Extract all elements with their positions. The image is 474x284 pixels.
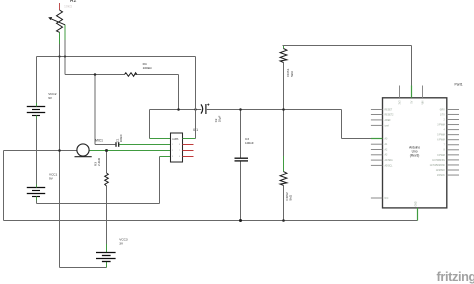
Arduino top pin labels rotated bbox=[399, 100, 424, 105]
battery VCC2 bbox=[27, 103, 45, 119]
wire cap row y=109 left part bbox=[150, 109, 202, 111]
wire IC1 unconnected pin 3 bbox=[183, 150, 194, 152]
wire CDS divider vertical middle bbox=[283, 63, 285, 172]
wire VCC3 bottom green leg bbox=[106, 262, 108, 268]
label VCC3 3V bbox=[119, 238, 128, 246]
wire A0 row y=138.5 bbox=[342, 138, 372, 140]
svg-text:ioref: ioref bbox=[385, 124, 390, 127]
svg-text:VIN: VIN bbox=[422, 100, 424, 104]
svg-text:6 PWM: 6 PWM bbox=[437, 140, 445, 142]
label C1 100nF rotated bbox=[116, 134, 124, 142]
wire VCC1 bottom stub bbox=[36, 197, 38, 204]
wire IC pin4 left green y=156.5 bbox=[160, 156, 171, 158]
label C3 100nF bbox=[245, 137, 254, 145]
wire C1 row right to IC pin2 green bbox=[119, 144, 170, 146]
battery VCC1 bbox=[27, 185, 45, 201]
node junction mic line R3 branch bbox=[105, 149, 108, 152]
svg-text:13/SCK: 13/SCK bbox=[437, 175, 445, 177]
wire C3 vertical top bbox=[240, 110, 242, 159]
wire feedback left vertical x=149.5 bbox=[149, 110, 151, 139]
wire CDS divider leg green top bbox=[283, 46, 285, 49]
svg-text:10µF: 10µF bbox=[218, 115, 222, 122]
capacitor C2 polarized bbox=[201, 104, 209, 115]
label R4 100k bbox=[143, 62, 153, 70]
svg-text:AREF: AREF bbox=[385, 119, 392, 122]
svg-text:11 PWM/MOSI: 11 PWM/MOSI bbox=[430, 165, 446, 167]
wire pot wiper vertical x=65 bbox=[64, 25, 66, 75]
wire pot bottom green leg bbox=[59, 32, 61, 44]
resistor R4 bbox=[125, 73, 137, 77]
node junction cap row IC out bbox=[194, 108, 196, 110]
potentiometer R2 bbox=[48, 3, 65, 32]
Arduino right pin labels bbox=[430, 109, 446, 177]
wire IC1 output vertical x=195.5 bbox=[195, 57, 197, 139]
wire R4 row y=74.5 bbox=[65, 74, 125, 76]
wire pot bottom terminal down to VCC3 return x=59.5 bbox=[59, 32, 61, 220]
label R2 (cut off at top) bbox=[64, 0, 77, 9]
wire x=95 vertical to C1 row bbox=[94, 75, 96, 145]
svg-text:100nF: 100nF bbox=[119, 134, 123, 142]
Arduino left pins group bbox=[371, 110, 383, 199]
svg-text:fritzing: fritzing bbox=[437, 269, 474, 284]
svg-text:6: 6 bbox=[179, 156, 180, 158]
svg-text:RESET: RESET bbox=[385, 109, 393, 111]
Arduino Uno Part1 body bbox=[383, 98, 447, 208]
wire 5V vertical x=411.5 bbox=[411, 46, 413, 86]
node junction pot-wiper VCC rail bbox=[64, 55, 66, 57]
node junction bus C3 bbox=[239, 219, 242, 222]
battery VCC3 bbox=[96, 253, 116, 262]
wire VCC top rail y=56.5 bbox=[37, 56, 196, 58]
Arduino top pins group bbox=[400, 86, 423, 98]
svg-text:3 PWM: 3 PWM bbox=[437, 124, 445, 126]
svg-text:5kΩ: 5kΩ bbox=[290, 71, 294, 77]
label CDS2 rotated bbox=[285, 192, 293, 201]
wire IC pin1 left green y=138.5 bbox=[150, 138, 171, 140]
wire C1 row left y=144.5 bbox=[95, 144, 115, 146]
wire pot wiper green leg bbox=[64, 25, 66, 40]
photoresistor CDS1 bbox=[280, 49, 287, 63]
Arduino bottom GND pin green bbox=[417, 208, 419, 221]
wire C3 vertical bottom bbox=[240, 161, 242, 221]
svg-text:(Rev3): (Rev3) bbox=[410, 154, 420, 158]
wire VCC3 return vertical x=59.5 bbox=[59, 221, 61, 268]
wire mic line left y=150.5 bbox=[4, 150, 78, 152]
resistor R3 bbox=[105, 173, 109, 186]
op-amp IC1 body bbox=[171, 133, 183, 162]
wire A0 pin green bbox=[371, 138, 382, 140]
capacitor C1 bbox=[116, 142, 119, 147]
microphone MIC1 bbox=[75, 144, 92, 157]
wire R3 bottom segment to VCC3 bbox=[106, 186, 108, 253]
wire VCC3 top green leg bbox=[106, 244, 108, 253]
svg-text:3V3: 3V3 bbox=[399, 100, 401, 105]
wire CDS2 bottom to bus bbox=[283, 185, 285, 220]
Arduino right pins group bbox=[447, 110, 459, 176]
label R3 2.2k rotated bbox=[93, 157, 101, 166]
Arduino left pin labels bbox=[385, 109, 395, 200]
svg-text:1/TX: 1/TX bbox=[440, 114, 445, 116]
svg-text:GND: GND bbox=[416, 201, 418, 206]
node junction R4 tap bbox=[94, 73, 97, 76]
wire CDS2 lower leg green bbox=[283, 156, 285, 172]
svg-text:3: 3 bbox=[172, 156, 173, 158]
svg-text:7: 7 bbox=[179, 150, 180, 152]
svg-text:100kΩ: 100kΩ bbox=[143, 66, 153, 70]
node junction cap row C3 bbox=[239, 108, 242, 111]
wire VCC1 bottom row y=203.5 bbox=[37, 203, 160, 205]
svg-text:10 PWM/SS: 10 PWM/SS bbox=[432, 160, 445, 162]
wire x=178.5 vertical R4 to cap row bbox=[178, 75, 180, 110]
label CDS1 rotated bbox=[286, 68, 294, 77]
svg-text:LM86: LM86 bbox=[172, 138, 179, 141]
wire VCC2 to VCC1 vertical bbox=[36, 115, 38, 188]
svg-text:A4/SDA: A4/SDA bbox=[385, 159, 394, 162]
svg-text:100nF: 100nF bbox=[245, 141, 254, 145]
label VCC1 9V bbox=[49, 173, 58, 181]
wire R3 top segment x=106.5 bbox=[106, 151, 108, 174]
svg-text:RESET2: RESET2 bbox=[385, 114, 395, 116]
svg-text:12/MISO: 12/MISO bbox=[436, 170, 445, 172]
node junction cap row R4 bbox=[177, 108, 180, 111]
wire A0 branch vertical x=341.5 bbox=[341, 110, 343, 139]
svg-text:Part1: Part1 bbox=[455, 83, 463, 87]
wire IC1 output green bbox=[183, 138, 196, 140]
node junction mic line pot branch bbox=[58, 149, 61, 152]
wire IC1 unconnected pin 2 bbox=[183, 144, 194, 146]
wire R4 row right segment bbox=[135, 74, 179, 76]
svg-text:N/C: N/C bbox=[385, 198, 389, 200]
wire mic output green y=150.5 bbox=[89, 150, 170, 152]
node junction bus CDS2 bbox=[282, 219, 285, 222]
svg-text:1: 1 bbox=[172, 144, 173, 146]
svg-text:9 PWM: 9 PWM bbox=[437, 155, 445, 157]
node junction cap row CDS bbox=[282, 108, 285, 111]
wire VCC3 return bottom y=267.5 bbox=[60, 267, 107, 269]
svg-text:2.2kΩ: 2.2kΩ bbox=[97, 157, 101, 166]
node junction pot-left VCC rail bbox=[58, 55, 60, 57]
wire IC1 unconnected pin 4 bbox=[183, 156, 194, 158]
svg-text:2: 2 bbox=[172, 150, 173, 152]
svg-text:0/RX: 0/RX bbox=[440, 109, 446, 111]
svg-text:MIC1: MIC1 bbox=[95, 139, 103, 143]
wire 5V top rail y=45.5 bbox=[283, 45, 412, 47]
wire far left vertical x=3.5 bbox=[3, 151, 5, 221]
label C2 10uF rotated bbox=[214, 115, 222, 122]
svg-text:A5/SCL: A5/SCL bbox=[385, 164, 394, 167]
wire x=159.5 vertical pin4 to VCC1 row bbox=[159, 157, 161, 204]
capacitor C3 bbox=[235, 158, 249, 161]
wire VCC2 top vertical x=36.5 bbox=[36, 57, 38, 107]
svg-text:8: 8 bbox=[179, 144, 180, 146]
label VCC2 9V bbox=[48, 92, 57, 100]
svg-text:5V: 5V bbox=[411, 100, 413, 103]
svg-text:5 PWM: 5 PWM bbox=[437, 135, 445, 137]
wire cap row y=109 right part bbox=[207, 109, 342, 111]
svg-text:10kΩ: 10kΩ bbox=[64, 5, 72, 9]
wire ground bus y=220.5 bbox=[4, 220, 418, 222]
svg-text:5kΩ: 5kΩ bbox=[289, 194, 293, 200]
photoresistor CDS2 bbox=[280, 172, 287, 186]
